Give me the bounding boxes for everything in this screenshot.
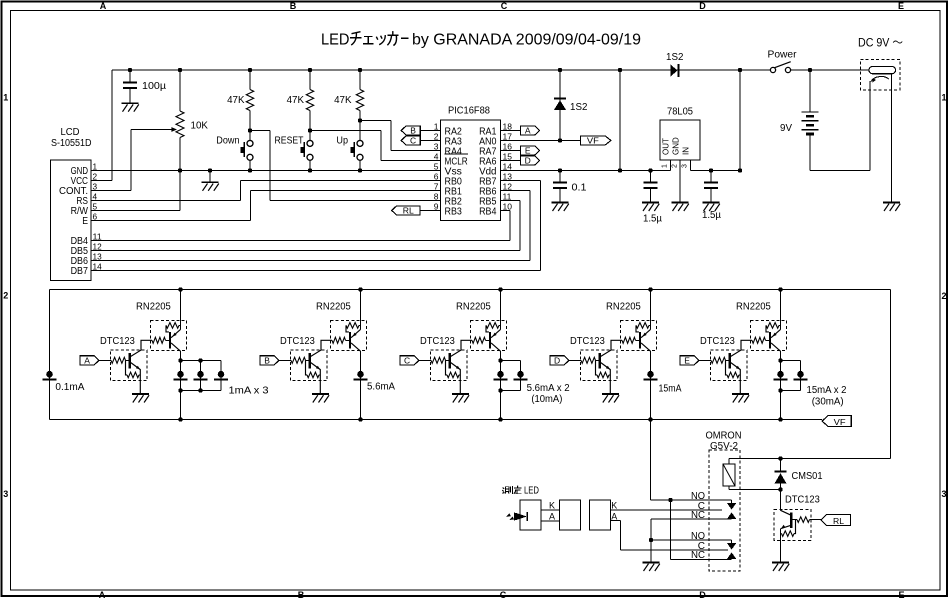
capacitor C2 0.1	[559, 171, 561, 182]
svg-text:by GRANADA 2009/09/04-09/19: by GRANADA 2009/09/04-09/19	[412, 32, 641, 49]
wire section2 left edge	[49, 290, 51, 420]
resistor 47K at x=360	[359, 70, 361, 90]
wire battery negative	[810, 170, 870, 172]
svg-text:E: E	[684, 355, 690, 365]
net tag RL (relay)	[821, 515, 851, 526]
transistor QA1 DTC123	[111, 357, 126, 363]
svg-text:B: B	[410, 125, 416, 135]
svg-text:Down: Down	[216, 136, 239, 147]
resistor 47K at x=250	[249, 70, 251, 90]
relay contact pole arrows group1	[731, 500, 733, 503]
wire 10K wiper	[131, 129, 172, 131]
net tag C (group input)	[400, 356, 419, 365]
net tag VF (bottom rail)	[822, 416, 851, 427]
wire GND rail (LCD pin1 to PIC Vss)	[91, 170, 441, 172]
svg-text:1: 1	[93, 161, 98, 171]
svg-text:RN2205: RN2205	[136, 301, 171, 312]
svg-text:D: D	[699, 590, 706, 600]
svg-text:47K: 47K	[334, 95, 352, 106]
resistor VR1 10K body	[176, 111, 184, 138]
wire Down to RB2	[250, 130, 270, 132]
78L05 pin3 lead	[689, 160, 691, 171]
svg-text:1S2: 1S2	[570, 102, 588, 113]
label measure kanji	[503, 488, 505, 489]
net tag A	[501, 130, 521, 132]
svg-text:Power: Power	[768, 50, 798, 61]
MCLR overbar	[445, 153, 468, 155]
svg-text:S-10551D: S-10551D	[51, 138, 92, 149]
svg-text:2: 2	[941, 291, 946, 301]
svg-text:CMS01: CMS01	[792, 471, 823, 482]
svg-text:OUT: OUT	[662, 138, 671, 155]
wire right edge to relay coil	[729, 458, 891, 460]
svg-text:5.6mA: 5.6mA	[367, 382, 395, 393]
svg-text:0.1mA: 0.1mA	[55, 382, 84, 393]
resistor 47K at x=310	[309, 70, 311, 90]
LED sockets group A	[177, 371, 184, 378]
node top rail junctions	[178, 287, 182, 291]
node Vdd rail dots	[558, 168, 562, 172]
svg-text:C: C	[404, 355, 410, 365]
svg-text:1: 1	[434, 121, 439, 131]
diode D1 1S2 horizontal	[670, 64, 677, 77]
wire section2 bottom rail	[50, 419, 823, 421]
wire DB5 to RB5	[91, 250, 520, 252]
svg-text:C: C	[500, 590, 507, 600]
svg-text:A: A	[84, 355, 90, 365]
wire contact NO2	[651, 539, 732, 541]
svg-text:DTC123: DTC123	[700, 336, 735, 347]
wire riser 9V input	[739, 70, 741, 171]
relay contact pole arrows group2	[731, 540, 733, 543]
DC jack barrel	[869, 66, 896, 73]
svg-text:18: 18	[503, 121, 513, 131]
ground under DC jack	[883, 202, 900, 204]
transistor QC1 DTC123	[431, 357, 446, 363]
node gnd rail dots	[208, 168, 212, 172]
wire Up to RA4	[360, 120, 391, 122]
svg-text:B: B	[298, 590, 305, 600]
wire contact NC1	[651, 518, 732, 520]
svg-text:5: 5	[434, 161, 439, 171]
svg-text:5: 5	[93, 201, 98, 211]
LED sockets group C	[497, 371, 504, 378]
svg-text:2: 2	[3, 291, 8, 301]
svg-text:14: 14	[93, 261, 102, 271]
svg-text:LED: LED	[321, 32, 350, 49]
svg-text:RN2205: RN2205	[456, 301, 491, 312]
ground group C DTC emitter	[452, 393, 469, 395]
wire RS to RB0	[91, 200, 241, 202]
LED socket 0.1mA on left edge	[46, 371, 53, 378]
transistor QD1 DTC123	[581, 357, 596, 363]
svg-text:G5V-2: G5V-2	[710, 441, 738, 452]
svg-text:VF: VF	[587, 135, 599, 145]
svg-text:1S2: 1S2	[666, 52, 684, 63]
wire AN0 to VF node	[501, 140, 581, 142]
svg-text:12: 12	[503, 181, 513, 191]
wire NC1 to ground chain	[650, 519, 652, 563]
ground contact common	[643, 562, 660, 564]
svg-text:LED: LED	[524, 486, 539, 497]
svg-text:10K: 10K	[191, 121, 209, 132]
svg-text:K: K	[611, 500, 617, 510]
wire contact C2	[611, 520, 621, 522]
wire 100u cap stem	[129, 70, 131, 82]
capacitor C4 1.5u	[710, 171, 712, 182]
svg-text:(30mA): (30mA)	[812, 397, 844, 408]
LED block E rails	[781, 360, 801, 362]
svg-text:2: 2	[93, 171, 98, 181]
svg-text:A: A	[549, 511, 555, 521]
transistor QA2 RN2205	[152, 337, 166, 343]
svg-text:1: 1	[3, 93, 8, 103]
wire holder A prong	[541, 520, 560, 522]
svg-text:RL: RL	[833, 516, 844, 526]
relay coil	[728, 459, 730, 465]
wire Vdd rail right segment	[690, 170, 740, 172]
wire 10K top stem	[179, 70, 181, 111]
transistor QD2 RN2205	[622, 337, 636, 343]
ground mid rail	[209, 171, 211, 183]
LED block A rails	[181, 360, 222, 362]
wire contact NO1	[671, 499, 732, 501]
svg-text:1: 1	[941, 93, 946, 103]
svg-text:1: 1	[662, 164, 669, 168]
svg-text:10: 10	[503, 201, 513, 211]
ground under 100u	[122, 102, 139, 104]
wire DB6 to RB6	[91, 260, 530, 262]
svg-text:3: 3	[3, 489, 8, 499]
LED sockets group E	[777, 371, 784, 378]
wire 1S2 anode stem	[559, 70, 561, 110]
svg-text:A: A	[100, 1, 107, 11]
svg-text:RB4: RB4	[479, 206, 497, 217]
svg-text:B: B	[290, 1, 297, 11]
svg-text:15mA: 15mA	[659, 383, 682, 394]
svg-text:DC 9V 〜: DC 9V 〜	[858, 36, 903, 50]
svg-text:4: 4	[93, 191, 98, 201]
svg-text:PIC16F88: PIC16F88	[448, 106, 490, 117]
svg-text:LCD: LCD	[61, 127, 80, 138]
wire DC jack sleeve	[891, 75, 893, 203]
LCD module S-10551D box	[51, 160, 92, 281]
wire contact NC2	[670, 500, 672, 560]
net tag B (group input)	[260, 356, 279, 365]
svg-text:NC: NC	[691, 550, 705, 561]
svg-text:E: E	[82, 216, 88, 227]
ground group D DTC emitter	[602, 393, 619, 395]
svg-text:E: E	[898, 1, 904, 11]
wire DB7 to RB7	[91, 270, 541, 272]
svg-text:RN2205: RN2205	[606, 301, 641, 312]
svg-text:17: 17	[503, 131, 513, 141]
net tag D (PIC)	[501, 160, 521, 162]
svg-text:K: K	[549, 500, 555, 510]
wire coil bottom to CMS01	[729, 489, 781, 491]
svg-text:78L05: 78L05	[667, 107, 693, 118]
svg-text:1.5µ: 1.5µ	[643, 214, 662, 225]
net tag A (group input)	[80, 356, 99, 365]
svg-text:RN2205: RN2205	[736, 301, 771, 312]
switch Down	[249, 111, 251, 131]
wire CONT to 10K wiper	[91, 190, 131, 192]
wire contact C1 (from K)	[611, 509, 723, 511]
wire top 5V bus	[112, 69, 679, 71]
svg-text:E: E	[898, 590, 904, 600]
svg-text:47K: 47K	[287, 95, 305, 106]
svg-text:A: A	[99, 590, 106, 600]
net tag D (group input)	[550, 356, 569, 365]
wire output E collector	[780, 351, 782, 419]
wire D output to NO1	[650, 420, 652, 501]
svg-text:OMRON: OMRON	[706, 431, 742, 442]
svg-text:C: C	[410, 135, 416, 145]
svg-text:1.5µ: 1.5µ	[702, 210, 721, 221]
svg-text:13: 13	[93, 251, 102, 261]
svg-text:D: D	[525, 155, 531, 165]
svg-text:(10mA): (10mA)	[531, 394, 562, 405]
svg-text:VF: VF	[834, 417, 846, 427]
LED socket group D	[647, 371, 654, 378]
ground under C4	[703, 202, 720, 204]
svg-text:9V: 9V	[780, 123, 792, 134]
svg-text:11: 11	[503, 191, 512, 201]
wire section2 right edge	[890, 290, 892, 459]
transistor QB1 DTC123	[291, 357, 306, 363]
svg-text:6: 6	[93, 211, 98, 221]
svg-text:GND: GND	[672, 137, 681, 155]
ground under 78L05 gnd pin	[672, 202, 689, 204]
svg-text:13: 13	[503, 171, 513, 181]
svg-text:100µ: 100µ	[142, 81, 166, 92]
svg-text:3: 3	[93, 181, 98, 191]
capacitor C1 100u	[123, 82, 137, 84]
wire section2 top rail	[50, 289, 891, 291]
transistor QE2 RN2205	[752, 337, 766, 343]
switch RESET	[309, 111, 311, 131]
svg-text:DTC123: DTC123	[100, 336, 135, 347]
svg-text:2: 2	[434, 131, 439, 141]
svg-text:A: A	[611, 511, 617, 521]
connector socket B	[560, 500, 581, 530]
relay OMRON G5V-2 dashed outline	[709, 450, 740, 571]
svg-text:DTC123: DTC123	[420, 336, 455, 347]
switch SW Power	[770, 67, 775, 72]
svg-text:DTC123: DTC123	[785, 495, 820, 506]
net tag RL (PIC)	[392, 206, 420, 215]
node bottom rail junctions	[178, 417, 182, 421]
net tag B	[401, 126, 420, 135]
svg-text:RB3: RB3	[445, 206, 463, 217]
svg-text:3: 3	[682, 164, 689, 168]
svg-text:D: D	[554, 355, 560, 365]
svg-text:7: 7	[434, 181, 439, 191]
IC U2 78L05 box	[660, 120, 700, 160]
LED socket group B	[357, 371, 364, 378]
svg-text:D: D	[699, 1, 706, 11]
wire E to RB1	[91, 220, 251, 222]
svg-text:14: 14	[503, 161, 513, 171]
svg-text:NC: NC	[691, 510, 705, 521]
svg-text:Up: Up	[336, 136, 348, 147]
svg-text:DTC123: DTC123	[280, 336, 315, 347]
wire DB4 to RB4	[91, 240, 510, 242]
svg-text:0.1: 0.1	[572, 183, 587, 194]
wire output D collector	[650, 351, 652, 419]
wire output C collector	[500, 351, 502, 419]
wire output B collector	[360, 351, 362, 419]
DC jack center contact	[871, 76, 889, 81]
svg-text:1mA x 3: 1mA x 3	[229, 385, 269, 396]
wire Vdd rail left segment	[501, 170, 671, 172]
svg-text:11: 11	[93, 231, 102, 241]
IC U1 PIC16F88 box	[441, 120, 501, 221]
svg-text:IN: IN	[682, 147, 691, 155]
wire 10K bottom stem	[179, 138, 181, 171]
ground relay driver emitter	[772, 562, 789, 564]
svg-text:DB7: DB7	[71, 266, 89, 277]
net tag E (PIC)	[501, 150, 521, 152]
svg-text:47K: 47K	[227, 95, 245, 106]
battery BT1 9V	[809, 70, 811, 111]
svg-text:E: E	[525, 145, 531, 155]
transistor QE1 DTC123	[711, 357, 726, 363]
78L05 pin2 lead	[679, 160, 681, 203]
ground under 0.1	[552, 202, 569, 204]
capacitor C3 1.5u	[650, 171, 652, 182]
svg-text:4: 4	[434, 151, 439, 161]
test LED symbol	[514, 512, 527, 520]
wire RW to gnd node	[91, 210, 180, 212]
svg-text:A: A	[525, 125, 531, 135]
svg-text:6: 6	[434, 171, 439, 181]
ground under C3	[642, 202, 659, 204]
wire riser 5V bus	[619, 70, 621, 171]
svg-text:5.6mA x 2: 5.6mA x 2	[527, 383, 570, 394]
svg-text:B: B	[264, 355, 270, 365]
svg-text:RL: RL	[403, 205, 414, 215]
LED block C rails	[501, 360, 521, 362]
ground group A DTC emitter	[132, 393, 149, 395]
svg-text:RN2205: RN2205	[316, 301, 351, 312]
svg-text:15: 15	[503, 151, 513, 161]
net tag E (group input)	[680, 356, 699, 365]
svg-text:8: 8	[434, 191, 439, 201]
svg-text:2: 2	[672, 164, 679, 168]
svg-text:RESET: RESET	[275, 136, 304, 147]
svg-text:C: C	[501, 1, 508, 11]
transistor QC2 RN2205	[472, 337, 486, 343]
svg-text:12: 12	[93, 241, 102, 251]
svg-text:9: 9	[434, 201, 439, 211]
connector plug C	[590, 500, 611, 530]
78L05 pin1 lead	[669, 160, 671, 171]
wire RESET to MCLR	[310, 130, 381, 132]
svg-text:16: 16	[503, 141, 513, 151]
diode D2 1S2 vertical	[554, 97, 566, 99]
diode D3 CMS01	[780, 459, 782, 472]
svg-text:3: 3	[941, 489, 946, 499]
transistor QB2 RN2205	[332, 337, 346, 343]
wire VCC riser	[91, 180, 112, 182]
switch Up	[359, 111, 361, 121]
net tag VF (PIC)	[581, 136, 611, 145]
net tag C	[401, 136, 420, 145]
DC jack dashed outline	[861, 60, 901, 91]
ground group B DTC emitter	[312, 393, 329, 395]
transistor Q6 DTC123 relay driver	[780, 490, 782, 511]
wire holder K prong	[541, 509, 560, 511]
wire output A collector	[180, 351, 182, 419]
node bus junctions	[128, 68, 132, 72]
svg-text:15mA x 2: 15mA x 2	[807, 385, 847, 396]
connector LED holder	[520, 500, 541, 530]
ground group E DTC emitter	[732, 393, 749, 395]
svg-text:DTC123: DTC123	[570, 336, 605, 347]
title katakana checker	[350, 31, 409, 45]
svg-text:3: 3	[434, 141, 439, 151]
